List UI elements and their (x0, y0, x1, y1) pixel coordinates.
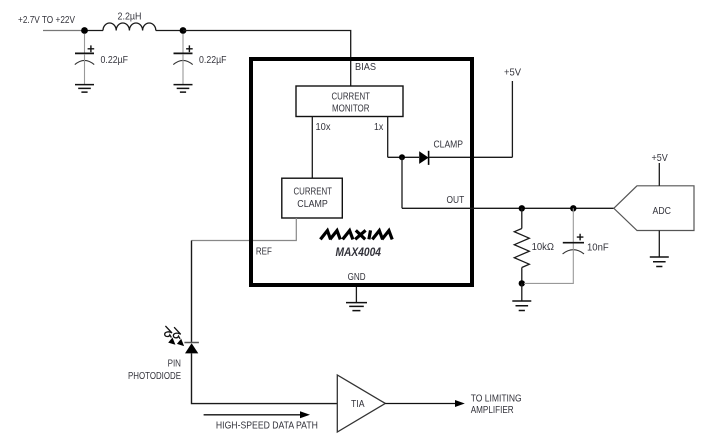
svg-text:+2.7V TO +22V: +2.7V TO +22V (18, 14, 75, 26)
svg-text:REF: REF (256, 245, 272, 257)
svg-text:0.22µF: 0.22µF (101, 54, 129, 66)
svg-text:GND: GND (348, 271, 366, 283)
svg-text:CLAMP: CLAMP (297, 198, 328, 210)
svg-text:CLAMP: CLAMP (434, 138, 464, 150)
svg-text:2.2µH: 2.2µH (118, 11, 142, 23)
svg-text:PHOTODIODE: PHOTODIODE (128, 370, 181, 382)
svg-text:CURRENT: CURRENT (294, 186, 333, 198)
svg-text:TO LIMITING: TO LIMITING (471, 393, 522, 405)
svg-text:0.22µF: 0.22µF (199, 54, 227, 66)
svg-text:OUT: OUT (447, 194, 465, 206)
svg-text:CURRENT: CURRENT (332, 91, 371, 103)
svg-text:ADC: ADC (653, 205, 672, 217)
svg-text:MAX4004: MAX4004 (336, 245, 382, 259)
svg-text:+5V: +5V (504, 67, 521, 79)
svg-text:MONITOR: MONITOR (332, 102, 370, 114)
svg-text:10x: 10x (316, 121, 332, 133)
svg-text:AMPLIFIER: AMPLIFIER (471, 404, 514, 416)
svg-text:BIAS: BIAS (355, 61, 376, 73)
svg-text:10kΩ: 10kΩ (532, 241, 555, 253)
svg-text:1x: 1x (374, 121, 384, 133)
svg-text:HIGH-SPEED DATA PATH: HIGH-SPEED DATA PATH (216, 419, 318, 431)
svg-text:PIN: PIN (168, 358, 181, 370)
svg-text:10nF: 10nF (587, 242, 609, 254)
svg-text:TIA: TIA (351, 398, 365, 410)
svg-text:+5V: +5V (652, 152, 668, 164)
